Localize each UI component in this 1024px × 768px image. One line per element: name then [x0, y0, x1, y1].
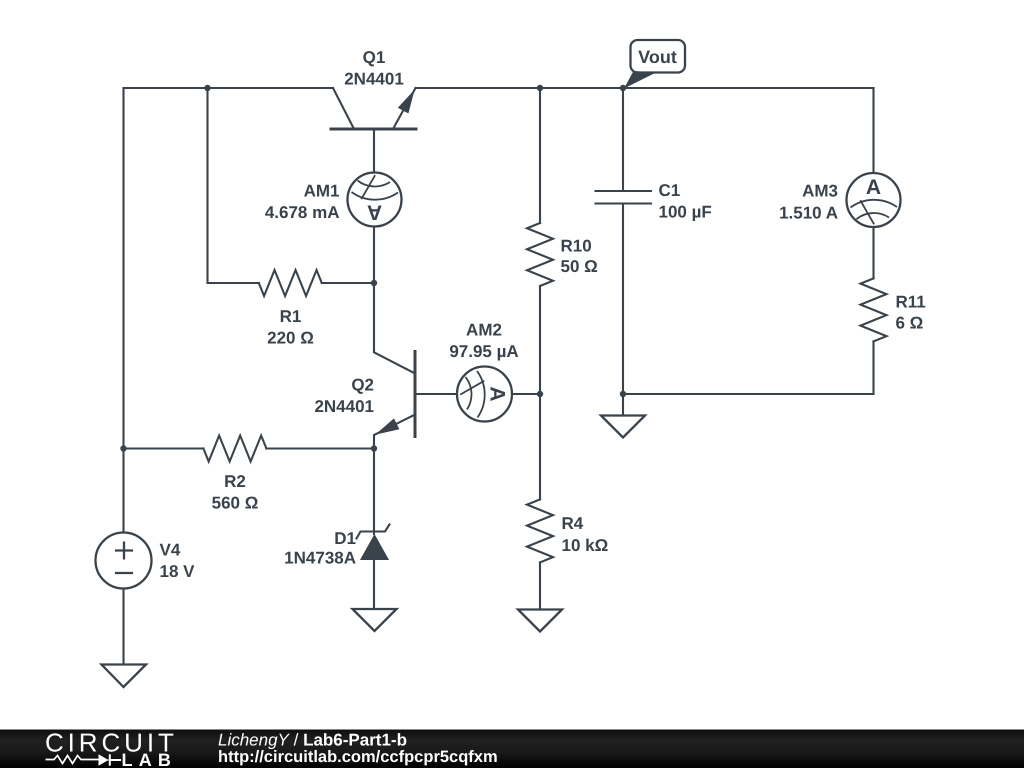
CircuitLab logo diode — [99, 754, 109, 765]
transistor Q2 base wire to AM2 — [415, 393, 457, 395]
svg-text:LichengY / Lab6-Part1-b: LichengY / Lab6-Part1-b — [218, 731, 407, 750]
svg-text:6 Ω: 6 Ω — [896, 314, 924, 333]
ground below bottom rail — [601, 416, 645, 438]
svg-text:D1: D1 — [334, 529, 356, 548]
CircuitLab logo waveform — [46, 756, 99, 764]
svg-text:LAB: LAB — [122, 750, 178, 768]
node junction top rail / R1 branch — [204, 85, 210, 91]
wire R2 right lead — [266, 447, 374, 449]
svg-text:2N4401: 2N4401 — [344, 70, 404, 89]
svg-text:http://circuitlab.com/ccfpcpr5: http://circuitlab.com/ccfpcpr5cqfxm — [218, 748, 498, 766]
transistor Q1 base bar — [331, 128, 416, 131]
wire R4 to ground — [539, 562, 541, 609]
resistor R11 zigzag — [861, 278, 887, 341]
voltage source V4 circle — [96, 533, 152, 589]
Vout node label callout box — [631, 40, 686, 73]
wire top rail left — [124, 87, 334, 89]
wire R10 to R4 — [539, 286, 541, 499]
transistor Q1 emitter diagonal — [393, 88, 416, 129]
transistor Q2 base bar — [414, 352, 417, 437]
svg-text:4.678 mA: 4.678 mA — [265, 203, 340, 222]
ground below V4 — [102, 665, 147, 688]
svg-text:560 Ω: 560 Ω — [212, 494, 259, 513]
svg-text:100 µF: 100 µF — [659, 202, 712, 221]
svg-text:AM2: AM2 — [466, 321, 502, 340]
svg-text:1N4738A: 1N4738A — [284, 549, 356, 568]
wire AM2 to R10/R4 rail — [512, 393, 540, 395]
svg-text:C1: C1 — [659, 181, 681, 200]
svg-text:2N4401: 2N4401 — [314, 397, 374, 416]
wire top rail right — [416, 87, 874, 89]
transistor Q1 collector diagonal — [333, 88, 354, 129]
voltage source V4 plus sign — [115, 542, 133, 560]
diode D1 triangle — [360, 534, 389, 560]
wire D1 bottom lead — [373, 560, 375, 609]
wire ground stub at bottom rail — [622, 394, 624, 416]
svg-text:A: A — [486, 386, 509, 401]
wire R2 left lead from rail — [124, 447, 204, 449]
node R1 / AM1 / Q2 junction — [371, 280, 377, 286]
svg-text:R11: R11 — [896, 292, 926, 311]
transistor Q1 emitter arrowhead — [398, 90, 415, 114]
wire R1 branch from top rail — [208, 88, 259, 283]
svg-text:Vout: Vout — [638, 47, 677, 67]
svg-text:AM1: AM1 — [304, 182, 340, 201]
node AM2 / R10 / R4 junction — [537, 391, 543, 397]
svg-text:1.510 A: 1.510 A — [779, 203, 838, 222]
node C1 / bottom wire / ground junction — [620, 391, 626, 397]
capacitor C1 bottom plate — [596, 202, 652, 204]
node left rail / R2 junction — [120, 445, 126, 451]
resistor R1 zigzag — [259, 270, 322, 296]
svg-text:97.95 µA: 97.95 µA — [449, 342, 518, 361]
wire bottom rail to R11 — [623, 341, 874, 394]
transistor Q2 emitter arrowhead — [375, 418, 399, 434]
svg-text:50 Ω: 50 Ω — [561, 257, 598, 276]
transistor Q2 emitter diagonal — [374, 415, 415, 449]
svg-text:220 Ω: 220 Ω — [267, 328, 314, 347]
resistor R10 zigzag — [527, 223, 553, 286]
footer bar — [0, 730, 1024, 768]
wire C1 bottom lead — [622, 205, 624, 395]
wire C1 top lead — [622, 88, 624, 190]
wire AM3 top lead — [872, 88, 874, 173]
svg-text:18 V: 18 V — [160, 562, 196, 581]
svg-text:R10: R10 — [561, 237, 592, 256]
svg-text:R4: R4 — [562, 514, 584, 533]
svg-text:A: A — [367, 201, 382, 224]
svg-text:R1: R1 — [280, 307, 302, 326]
ammeter AM1 (flipped vertically) — [348, 173, 402, 227]
wire left rail — [122, 88, 124, 533]
resistor R4 zigzag — [527, 499, 553, 562]
Vout callout tail — [624, 71, 656, 89]
svg-text:Q2: Q2 — [351, 376, 374, 395]
wire Q1 base to AM1 — [373, 129, 375, 173]
ground below D1 — [353, 609, 397, 631]
svg-text:V4: V4 — [160, 541, 181, 560]
node R2 / Q2 emitter / D1 junction — [371, 445, 377, 451]
wire R1 right lead — [322, 282, 374, 284]
ammeter AM2 (rotated 90) — [457, 367, 512, 422]
wire AM3 to R11 — [872, 227, 874, 278]
capacitor C1 top plate — [596, 190, 652, 192]
ammeter AM3 — [847, 173, 901, 227]
svg-text:R2: R2 — [224, 472, 246, 491]
wire D1 top lead — [373, 449, 375, 535]
svg-text:Q1: Q1 — [363, 48, 386, 67]
diode D1 zener cathode bar — [357, 525, 390, 539]
svg-text:A: A — [866, 176, 881, 199]
node top rail / R10 branch — [537, 85, 543, 91]
node top rail / Vout / C1 — [620, 85, 626, 91]
svg-text:AM3: AM3 — [802, 181, 838, 200]
svg-text:10 kΩ: 10 kΩ — [562, 536, 609, 555]
ground below R4 — [518, 610, 562, 632]
wire R10 branch from top rail — [539, 88, 541, 223]
wire AM1 to R1 node and Q2 collector — [374, 227, 415, 374]
voltage source V4 minus sign — [115, 572, 133, 574]
wire V4 to ground — [122, 589, 124, 665]
resistor R2 zigzag — [203, 436, 266, 462]
